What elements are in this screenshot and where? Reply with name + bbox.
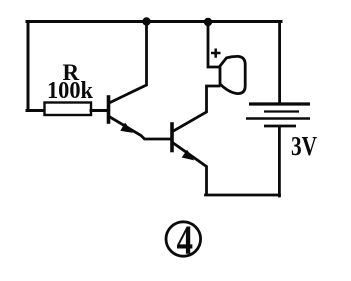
svg-text:4: 4: [177, 217, 194, 263]
svg-text:3V: 3V: [291, 131, 317, 161]
svg-text:100k: 100k: [47, 78, 94, 104]
